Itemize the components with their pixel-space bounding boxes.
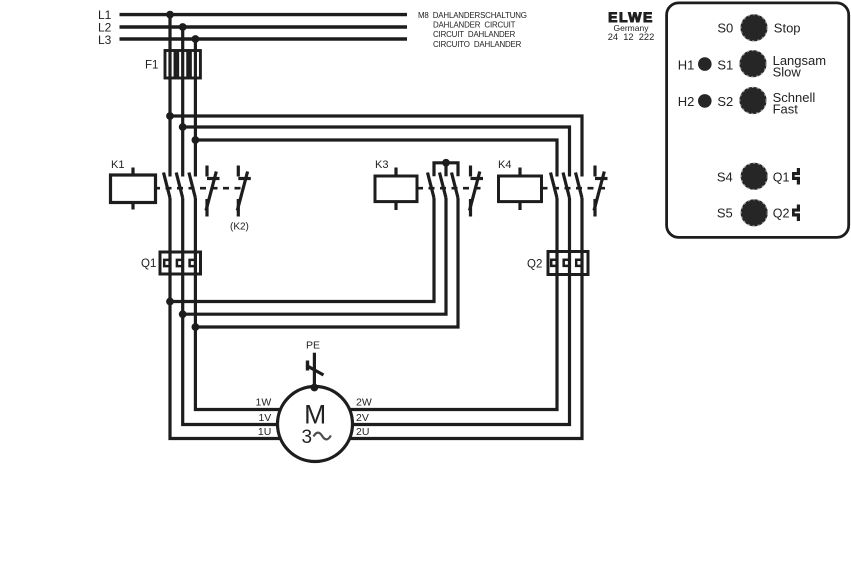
- junction Q1 out phase3 to K3: [192, 323, 200, 331]
- wire K3 pole2 to phase2 junction: [183, 198, 446, 314]
- svg-text:K1: K1: [111, 159, 124, 171]
- wire L1 bus: [120, 13, 408, 16]
- contactor K3 auxiliary NC contact: [470, 166, 484, 217]
- contactor K1 auxiliary NC contact: [206, 166, 220, 217]
- lamp H1: [698, 57, 712, 71]
- junction phase1 branch to K4: [166, 112, 174, 120]
- svg-text:Fast: Fast: [773, 101, 799, 116]
- overload relay Q2 thermal element 1: [551, 252, 557, 275]
- contactor K1 main contact pole1: [164, 173, 171, 199]
- svg-text:2U: 2U: [356, 426, 369, 438]
- wire K4 pole2 to Q2 to motor 2V: [352, 198, 570, 425]
- svg-text:Slow: Slow: [773, 64, 802, 79]
- svg-text:(K2): (K2): [230, 222, 249, 233]
- button S5: [741, 199, 768, 226]
- svg-text:K3: K3: [375, 159, 388, 171]
- contactor K1 mechanical link (dashed): [154, 187, 243, 190]
- contactor K4 mechanical link (dashed): [542, 187, 609, 190]
- svg-text:M8 DAHLANDERSCHALTUNG: M8 DAHLANDERSCHALTUNG: [418, 11, 527, 20]
- contactor K2 auxiliary NC contact: [237, 166, 251, 217]
- button S0: [740, 14, 767, 41]
- svg-text:1W: 1W: [256, 397, 272, 409]
- overload relay Q1 thermal element 1: [164, 252, 170, 274]
- svg-text:PE: PE: [306, 340, 320, 352]
- wire branch phase2 to K4 pole2: [183, 127, 570, 177]
- icon NC contact for Q1: [792, 168, 802, 185]
- svg-text:M: M: [304, 399, 326, 429]
- junction Q1 out phase1 to K3: [166, 298, 174, 306]
- svg-text:S2: S2: [717, 94, 733, 109]
- svg-text:3: 3: [302, 427, 313, 448]
- svg-text:DAHLANDER CIRCUIT: DAHLANDER CIRCUIT: [433, 21, 516, 30]
- svg-text:24 12 222: 24 12 222: [608, 32, 655, 42]
- contactor K4 auxiliary NC contact: [594, 166, 608, 217]
- wire L3 bus: [120, 37, 408, 40]
- wire phase2 vertical (L2 to K1 contact): [181, 27, 184, 177]
- wire K3 pole3 to phase3 junction: [195, 198, 458, 327]
- wire branch phase1 to K4 pole3: [170, 116, 582, 177]
- svg-text:S5: S5: [717, 206, 733, 221]
- svg-text:S0: S0: [717, 20, 733, 35]
- svg-text:CIRCUIT DAHLANDER: CIRCUIT DAHLANDER: [433, 30, 516, 39]
- button S1: [739, 50, 766, 77]
- svg-text:2W: 2W: [356, 397, 372, 409]
- contactor K4 coil: [499, 168, 542, 211]
- contactor K1 main contact pole2: [176, 173, 183, 199]
- contactor K1 coil: [111, 168, 156, 210]
- wire K4 pole1 to Q2 to motor 2W: [349, 198, 557, 410]
- fuse F1 pole 2: [178, 51, 188, 79]
- overload relay Q1 box: [160, 252, 201, 274]
- junction L1 tap: [166, 11, 174, 19]
- contactor K4 main contact pole3: [576, 173, 583, 199]
- svg-text:S4: S4: [717, 169, 733, 184]
- overload relay Q2 thermal element 3: [576, 252, 582, 275]
- icon NC contact for Q2: [792, 205, 802, 222]
- junction K3 star point: [442, 159, 450, 167]
- contactor K3 star bridge: [434, 163, 458, 177]
- overload relay Q1 thermal element 3: [190, 252, 196, 274]
- svg-text:H1: H1: [678, 57, 695, 72]
- button S4: [741, 163, 768, 190]
- motor M1 body: [278, 387, 353, 462]
- overload relay Q2 box: [548, 252, 588, 275]
- junction L2 tap: [179, 23, 187, 31]
- svg-text:S1: S1: [717, 57, 733, 72]
- svg-text:Stop: Stop: [774, 20, 801, 35]
- wire L2 bus: [120, 25, 408, 28]
- junction L3 tap: [192, 35, 200, 43]
- svg-text:H2: H2: [678, 94, 695, 109]
- svg-text:Q2: Q2: [527, 259, 542, 271]
- wire K3 pole1 to phase1 junction: [170, 198, 434, 302]
- lamp H2: [698, 94, 712, 108]
- fuse F1 pole 1: [165, 51, 175, 79]
- contactor K3 main contact pole3: [452, 173, 459, 199]
- svg-text:1V: 1V: [258, 412, 271, 424]
- wire phase3 K1 to Q1 to motor 1W: [195, 198, 281, 410]
- contactor K1 main contact pole3: [189, 173, 196, 199]
- wire phase3 vertical (L3 to K1 contact): [194, 39, 197, 177]
- svg-text:F1: F1: [145, 60, 158, 72]
- wire PE to motor: [313, 353, 316, 388]
- wire phase1 vertical (L1 to K1 contact): [168, 15, 171, 177]
- svg-text:L3: L3: [98, 33, 112, 47]
- svg-text:Q2: Q2: [773, 207, 790, 221]
- svg-text:1U: 1U: [258, 426, 271, 438]
- svg-text:Q1: Q1: [141, 258, 156, 270]
- button S2: [739, 87, 766, 114]
- wire phase1 K1 to Q1 to motor 1U: [170, 198, 281, 439]
- svg-text:CIRCUITO DAHLANDER: CIRCUITO DAHLANDER: [433, 40, 522, 49]
- contactor K3 main contact pole1: [428, 173, 435, 199]
- contactor K3 mechanical link (dashed): [417, 187, 484, 190]
- overload relay Q1 thermal element 2: [177, 252, 183, 274]
- fuse F1 pole 3: [190, 51, 200, 79]
- contactor K3 coil: [375, 168, 417, 211]
- svg-text:2V: 2V: [356, 412, 369, 424]
- control panel outline: [667, 3, 849, 238]
- contactor K4 main contact pole1: [551, 173, 558, 199]
- PE conductor slash: [306, 361, 309, 371]
- wire phase2 K1 to Q1 to motor 1V: [183, 198, 278, 425]
- junction PE at motor: [311, 384, 319, 392]
- junction phase3 branch to K4: [192, 136, 200, 144]
- wire branch phase3 to K4 pole1: [195, 140, 557, 177]
- wire K4 pole3 to Q2 to motor 2U: [349, 198, 582, 439]
- overload relay Q2 thermal element 2: [564, 252, 570, 275]
- junction phase2 branch to K4: [179, 123, 187, 131]
- svg-text:Q1: Q1: [773, 170, 790, 184]
- junction Q1 out phase2 to K3: [179, 310, 187, 318]
- svg-text:K4: K4: [498, 159, 511, 171]
- contactor K3 main contact pole2: [440, 173, 447, 199]
- contactor K4 main contact pole2: [563, 173, 570, 199]
